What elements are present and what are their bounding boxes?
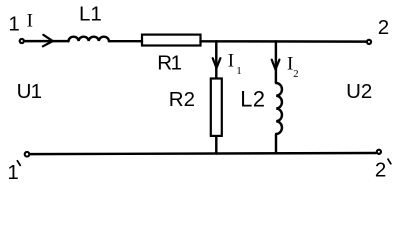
- svg-text:2: 2: [375, 159, 386, 182]
- svg-text:1: 1: [8, 13, 19, 36]
- svg-text:L1: L1: [79, 2, 102, 25]
- svg-text:1: 1: [7, 161, 18, 184]
- svg-text:2: 2: [378, 16, 389, 39]
- svg-text:I: I: [27, 11, 33, 32]
- svg-text:R2: R2: [169, 88, 195, 111]
- svg-text:R1: R1: [157, 52, 181, 75]
- svg-text:U2: U2: [346, 80, 372, 103]
- svg-text:U1: U1: [17, 80, 42, 103]
- svg-text:L2: L2: [240, 86, 265, 111]
- svg-text:2: 2: [293, 68, 299, 80]
- svg-text:1: 1: [236, 65, 242, 77]
- svg-text:I: I: [228, 51, 234, 72]
